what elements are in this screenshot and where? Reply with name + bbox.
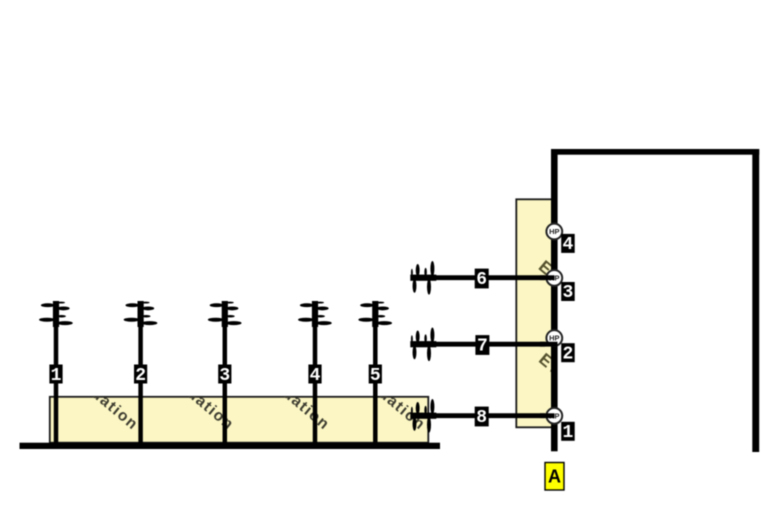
bottom bus — [20, 443, 441, 449]
svg-text:HP: HP — [549, 227, 559, 236]
wire element 1 — [54, 325, 59, 444]
wire 7 over circle bottom — [540, 342, 558, 347]
node A tag — [545, 463, 564, 491]
svg-text:2: 2 — [135, 366, 146, 386]
label 7 — [475, 335, 489, 357]
label 5 — [369, 365, 382, 386]
svg-text:HP: HP — [549, 334, 559, 343]
svg-text:1: 1 — [51, 366, 62, 386]
label 8 — [475, 407, 489, 429]
label 1 — [49, 365, 62, 386]
air terminal 6 — [410, 261, 436, 295]
label 3 — [218, 365, 231, 386]
HP marker 1 — [546, 408, 562, 424]
svg-text:3: 3 — [562, 283, 573, 303]
label 4 — [308, 365, 321, 386]
air terminal 1 — [39, 301, 73, 327]
HP marker 2 — [546, 330, 562, 346]
wire element 3 — [223, 325, 228, 444]
bus label 2 — [561, 343, 575, 364]
right frame line — [752, 149, 759, 452]
svg-text:3: 3 — [219, 366, 230, 386]
bus label 4 — [561, 234, 575, 255]
wire element 8 — [430, 413, 545, 418]
HP marker 3 — [546, 270, 562, 286]
air terminal 5 — [358, 301, 392, 327]
air terminal 8 — [410, 399, 436, 433]
svg-text:1: 1 — [562, 423, 573, 443]
svg-text:4: 4 — [310, 366, 321, 386]
air terminal 7 — [410, 327, 436, 361]
evaluation watermark band (bottom) — [50, 361, 429, 443]
main vertical bus — [551, 149, 558, 451]
svg-text:2: 2 — [562, 344, 573, 364]
air terminal 2 — [124, 301, 158, 327]
svg-text:6: 6 — [476, 270, 487, 290]
top frame line — [551, 149, 759, 155]
svg-text:A: A — [548, 467, 561, 487]
bus label 1 — [561, 422, 575, 443]
svg-text:7: 7 — [477, 337, 488, 357]
HP marker 4 — [546, 224, 562, 240]
label 2 — [134, 365, 147, 386]
label 6 — [475, 269, 489, 291]
wire element 2 — [138, 325, 143, 444]
evaluation watermark band (vertical, right) — [516, 199, 624, 429]
bus label 3 — [561, 282, 575, 303]
svg-text:5: 5 — [370, 366, 381, 386]
air terminal 3 — [208, 301, 242, 327]
wire element 6 — [430, 275, 545, 280]
wire element 4 — [313, 325, 318, 444]
wire 8 stub into HP1 — [540, 413, 555, 418]
air terminal 4 — [298, 301, 332, 327]
wire element 5 — [373, 325, 378, 444]
svg-text:4: 4 — [562, 235, 573, 255]
wire 6 stub into HP3 — [540, 275, 555, 280]
wire element 7 — [430, 342, 545, 347]
svg-text:8: 8 — [476, 408, 487, 428]
